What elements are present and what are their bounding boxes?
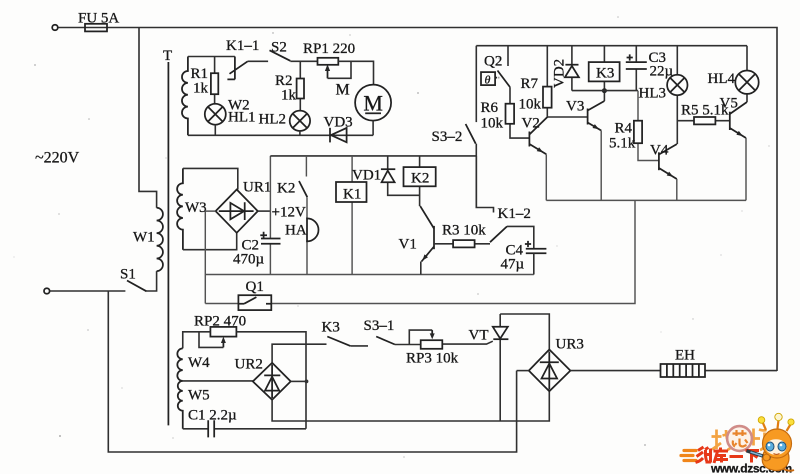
svg-text:V3: V3 bbox=[566, 99, 584, 115]
resistor R4 5.1k bbox=[638, 91, 659, 161]
svg-text:K1–1: K1–1 bbox=[226, 38, 259, 54]
svg-text:M: M bbox=[363, 91, 383, 116]
svg-text:RP1 220: RP1 220 bbox=[303, 41, 355, 57]
svg-text:R4: R4 bbox=[615, 121, 633, 137]
svg-text:VD1: VD1 bbox=[352, 168, 381, 184]
node dot: V3 collector junction bbox=[602, 88, 607, 93]
svg-text:Q2: Q2 bbox=[484, 54, 502, 70]
lamp HL2 bbox=[290, 111, 310, 131]
wire: mains top line with right edge drop bbox=[58, 28, 777, 372]
capacitor C1 2.2u bbox=[183, 428, 306, 430]
wire: rail-2 bbox=[205, 274, 534, 276]
switch S3-2 bbox=[475, 46, 477, 122]
wire: RP1 to motor bbox=[338, 61, 373, 84]
transistor V5 bbox=[729, 112, 731, 130]
svg-text:V1: V1 bbox=[399, 237, 417, 253]
svg-text:R6: R6 bbox=[481, 100, 499, 116]
heater EH bbox=[661, 364, 706, 377]
svg-text:M: M bbox=[336, 82, 350, 99]
wire: W1 bottom stub bbox=[147, 271, 157, 291]
resistor R6 10k bbox=[510, 87, 529, 138]
wire: UR2 top vertex to K3 contact bbox=[272, 344, 326, 363]
winding W3 bbox=[177, 168, 183, 249]
potentiometer RP3 10k bbox=[395, 341, 493, 344]
bridge rectifier UR3 bbox=[529, 350, 571, 392]
thyristor VT bbox=[499, 314, 501, 421]
svg-text:1k: 1k bbox=[281, 88, 297, 104]
wire: drop from top wire to transformer primary bbox=[139, 28, 157, 208]
bridge rectifier UR2 bbox=[253, 363, 291, 400]
capacitor C2 470u bbox=[261, 239, 281, 244]
svg-text:HL1: HL1 bbox=[228, 110, 256, 126]
svg-text:W3: W3 bbox=[185, 200, 207, 216]
svg-text:K3: K3 bbox=[596, 66, 614, 82]
switch S1 bbox=[127, 281, 147, 292]
transistor V4 bbox=[658, 152, 660, 170]
resistor R3 10k bbox=[434, 243, 490, 245]
svg-text:RP3 10k: RP3 10k bbox=[406, 351, 459, 367]
wire: UR1 plus to +12V line bbox=[258, 210, 271, 212]
watermark: outlined character 找 bbox=[712, 430, 733, 451]
lamp HL4 bbox=[746, 46, 748, 102]
wire: node line VD2/K3/C3 bbox=[572, 90, 638, 92]
svg-text:UR3: UR3 bbox=[556, 337, 584, 353]
switch S3-1 bbox=[376, 337, 395, 345]
lamp HL1 bbox=[205, 104, 226, 125]
wire: W2 top rail bbox=[188, 56, 235, 58]
resistor R5 5.1k bbox=[677, 120, 730, 122]
relay contact K3 bbox=[327, 337, 350, 346]
svg-text:HA: HA bbox=[285, 223, 307, 239]
svg-text:K1: K1 bbox=[343, 187, 361, 203]
node: input terminal top bbox=[52, 25, 58, 31]
svg-text:S1: S1 bbox=[120, 267, 136, 283]
potentiometer RP1 220 bbox=[318, 58, 339, 65]
relay coil K1 bbox=[351, 156, 353, 275]
wire: left frame down and bottom run bbox=[108, 291, 516, 452]
watermark: outlined character 片 bbox=[754, 429, 767, 451]
svg-text:W5: W5 bbox=[188, 388, 210, 404]
transistor V2 bbox=[528, 132, 530, 147]
svg-text:10k: 10k bbox=[481, 116, 504, 132]
transistor V1 bbox=[433, 226, 435, 249]
diode VD3 bbox=[329, 128, 331, 143]
svg-text:HL3: HL3 bbox=[639, 86, 667, 102]
svg-text:+12V: +12V bbox=[272, 205, 306, 221]
transformer core T bbox=[167, 62, 169, 425]
transistor V3 bbox=[587, 109, 589, 125]
diode VD1 bbox=[388, 156, 420, 195]
wire: UR1 minus to rails bbox=[205, 211, 215, 303]
svg-text:K3: K3 bbox=[322, 320, 340, 336]
winding W4 bbox=[177, 348, 182, 381]
watermark: magnifier with 芯 bbox=[727, 426, 752, 451]
svg-text:C1 2.2µ: C1 2.2µ bbox=[188, 408, 237, 424]
winding W5 bbox=[178, 381, 183, 429]
svg-text:47µ: 47µ bbox=[501, 257, 525, 273]
svg-text:V4: V4 bbox=[650, 143, 669, 159]
svg-text:VT: VT bbox=[469, 328, 489, 344]
svg-text:Q1: Q1 bbox=[246, 279, 264, 295]
wire: V2 collector node to V3 base bbox=[547, 116, 587, 118]
wire: UR2 right vertex bbox=[291, 380, 306, 382]
wire: VT top corner to UR3 bbox=[500, 314, 549, 350]
fuse FU 5A bbox=[85, 24, 107, 32]
svg-text:R7: R7 bbox=[521, 76, 539, 92]
relay contact K1-1 bbox=[227, 57, 247, 80]
wire: right block top rail bbox=[476, 45, 747, 47]
wire: S1 to bottom terminal bbox=[50, 290, 126, 292]
watermark: 维库一下 red text bbox=[696, 447, 760, 463]
svg-text:470µ: 470µ bbox=[233, 252, 265, 268]
svg-text:5.1k: 5.1k bbox=[609, 136, 636, 152]
thermal switch Q2 bbox=[507, 46, 509, 66]
relay coil K2 bbox=[419, 156, 421, 206]
wire: S2 to RP1 bbox=[290, 60, 317, 62]
resistor R2 with lamp HL2 bbox=[299, 61, 301, 110]
svg-text:~220V: ~220V bbox=[35, 150, 80, 167]
svg-text:T: T bbox=[163, 48, 172, 64]
svg-text:V2: V2 bbox=[522, 116, 540, 132]
switch S2 bbox=[270, 50, 291, 61]
resistor R7 10k bbox=[546, 46, 548, 117]
wire: emitter line-4 bbox=[546, 199, 746, 201]
relay coil K3 bbox=[603, 46, 605, 91]
svg-text:S2: S2 bbox=[271, 40, 287, 56]
wire: UR3 right to EH bbox=[570, 370, 777, 372]
svg-text:10k: 10k bbox=[519, 97, 542, 113]
svg-text:K1–2: K1–2 bbox=[498, 206, 531, 222]
svg-text:K2: K2 bbox=[277, 181, 295, 197]
bridge rectifier UR1 bbox=[216, 190, 258, 233]
wire: UR3 left vertex bbox=[517, 370, 529, 372]
svg-text:HL2: HL2 bbox=[259, 112, 287, 128]
wire: +12V vertical line bbox=[269, 156, 271, 275]
svg-text:EH: EH bbox=[675, 348, 695, 364]
svg-text:W4: W4 bbox=[188, 355, 210, 371]
transformer primary W1 bbox=[157, 208, 163, 271]
svg-text:HL4: HL4 bbox=[708, 71, 736, 87]
relay contact K2 (buzzer branch) bbox=[305, 156, 307, 177]
wire: W2 block bottom rail bbox=[188, 134, 373, 136]
svg-text:K2: K2 bbox=[411, 171, 429, 187]
svg-text:VD2: VD2 bbox=[552, 59, 568, 88]
wire: UR2 bottom to UR3 bottom bbox=[272, 391, 549, 421]
svg-text:W1: W1 bbox=[133, 230, 155, 246]
watermark: speed dashes bbox=[681, 451, 696, 461]
svg-text:R3 10k: R3 10k bbox=[442, 223, 486, 239]
svg-text:θ: θ bbox=[485, 73, 491, 87]
resistor R1 bbox=[214, 57, 216, 104]
motor M bbox=[355, 85, 391, 121]
lamp HL3 bbox=[676, 46, 678, 144]
diode VD2 bbox=[571, 46, 573, 91]
svg-text:FU 5A: FU 5A bbox=[78, 11, 119, 27]
wire: rail-1 (+12V top rail) bbox=[270, 155, 476, 157]
capacitor C3 22u bbox=[635, 46, 637, 91]
svg-text:VD3: VD3 bbox=[324, 115, 353, 131]
svg-text:S3–1: S3–1 bbox=[364, 318, 395, 334]
capacitor C4 47u bbox=[526, 249, 547, 253]
winding W2 bbox=[182, 57, 188, 136]
svg-text:V5: V5 bbox=[720, 96, 738, 112]
wire: K1-1 to S2 bbox=[248, 60, 268, 62]
node: input terminal bottom bbox=[44, 288, 50, 294]
relay contact K1-2 bbox=[490, 226, 507, 242]
watermark: mascot bbox=[747, 413, 795, 470]
wire: rail-3 through Q1 bbox=[205, 200, 635, 303]
svg-text:UR2: UR2 bbox=[235, 357, 263, 373]
thermal cutout Q1 bbox=[238, 295, 271, 310]
wire: W4/W5 tap to UR2 bbox=[183, 380, 253, 382]
svg-text:1k: 1k bbox=[193, 81, 209, 97]
svg-text:S3–2: S3–2 bbox=[432, 129, 463, 145]
wire: W3 loop to UR1 bbox=[183, 168, 238, 249]
svg-text:UR1: UR1 bbox=[243, 180, 271, 196]
buzzer HA bbox=[306, 197, 308, 274]
wire: K1-2 to C4 bbox=[507, 226, 534, 248]
wire: K3 to S3-1 bbox=[350, 345, 368, 347]
